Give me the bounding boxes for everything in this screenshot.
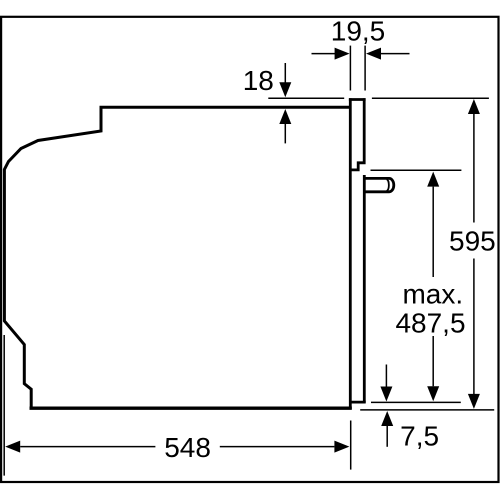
dimension 7.5 down arrow <box>385 365 387 387</box>
dimension 7.5 up arrow <box>386 426 388 447</box>
dimension 18 up arrow <box>284 124 286 143</box>
dimension 18 down arrow <box>284 63 286 83</box>
extension line top right (door top level) <box>372 97 489 99</box>
dimension 19.5 left arrow <box>312 53 336 55</box>
oven body bottom line <box>30 407 352 410</box>
dimension 548 double arrow <box>20 446 155 448</box>
dimension 19.5 right arrow <box>381 53 410 55</box>
oven door top edge <box>349 98 366 101</box>
extension line oven bottom level <box>360 409 494 411</box>
svg-text:487,5: 487,5 <box>395 307 465 338</box>
svg-text:19,5: 19,5 <box>331 16 386 47</box>
svg-text:595: 595 <box>449 226 496 257</box>
extension line top left (door top level) <box>268 97 344 99</box>
svg-text:18: 18 <box>243 65 274 96</box>
door handle <box>365 178 394 191</box>
svg-text:max.: max. <box>402 279 463 310</box>
oven door lower right edge <box>363 175 366 403</box>
dimension 595 double arrow <box>473 114 475 223</box>
extension line 19.5 right <box>364 46 366 91</box>
svg-text:7,5: 7,5 <box>400 421 439 452</box>
oven door upper right edge with step <box>350 98 364 170</box>
oven door left edge <box>349 98 352 409</box>
oven body outline <box>4 107 350 408</box>
svg-text:548: 548 <box>164 432 211 463</box>
extension line 548 right <box>350 421 352 470</box>
extension line door bottom level <box>371 401 461 403</box>
dimension max 487.5 double arrow <box>432 187 434 277</box>
door handle end arc <box>387 179 389 191</box>
extension line handle top level <box>371 169 462 171</box>
oven door bottom edge <box>349 401 366 404</box>
extension line 548 left <box>3 335 5 476</box>
extension line 19.5 left <box>349 46 351 91</box>
